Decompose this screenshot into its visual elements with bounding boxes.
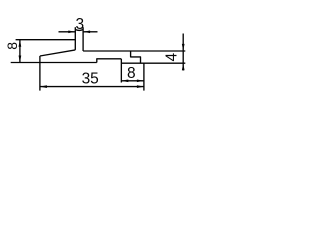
svg-text:8: 8 xyxy=(127,65,136,82)
svg-text:8: 8 xyxy=(4,42,20,50)
svg-text:4: 4 xyxy=(164,53,181,62)
svg-text:3: 3 xyxy=(75,16,84,33)
svg-text:35: 35 xyxy=(82,71,99,88)
